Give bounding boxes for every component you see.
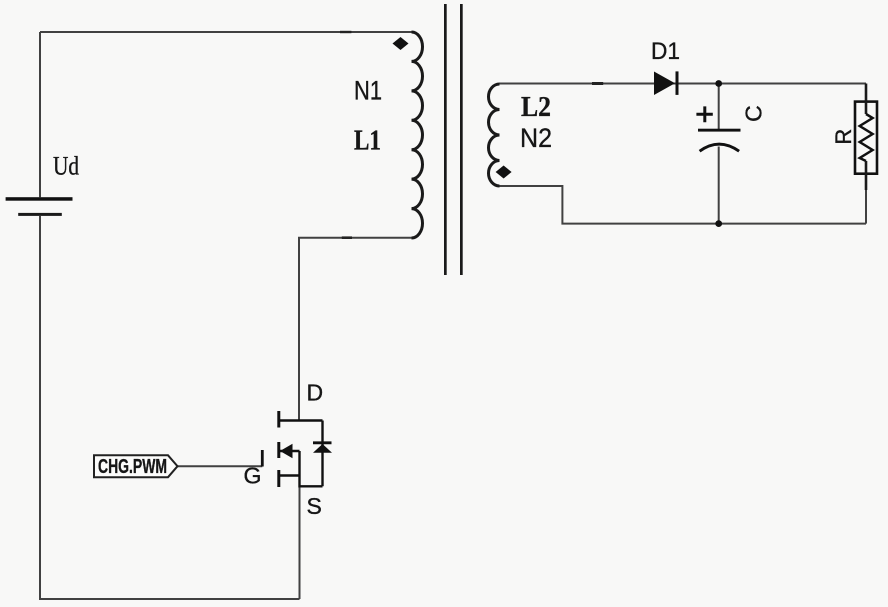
svg-text:G: G <box>244 463 262 489</box>
svg-text:D: D <box>307 380 324 406</box>
svg-text:N1: N1 <box>354 76 382 106</box>
svg-text:S: S <box>307 493 322 519</box>
svg-text:CHG.PWM: CHG.PWM <box>98 456 167 478</box>
svg-text:D1: D1 <box>651 38 680 65</box>
svg-text:C: C <box>740 105 766 122</box>
svg-text:L2: L2 <box>521 91 551 123</box>
svg-text:R: R <box>831 129 856 145</box>
svg-text:N2: N2 <box>520 123 552 153</box>
svg-text:Ud: Ud <box>53 152 79 181</box>
svg-text:L1: L1 <box>354 125 381 157</box>
